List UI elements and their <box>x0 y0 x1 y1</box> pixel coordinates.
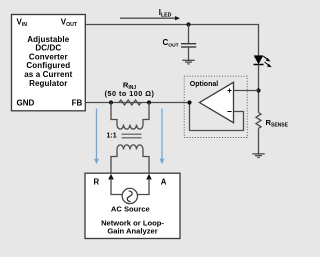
opamp - input mark <box>227 111 231 113</box>
analyzer box <box>85 173 180 238</box>
DC/DC converter block <box>12 15 86 111</box>
wire RSENSE to ground <box>258 128 260 153</box>
wires terminals to AC source <box>111 179 122 195</box>
wire feedback loop <box>190 103 244 131</box>
junction op-amp output node <box>187 100 191 104</box>
blue arrow right <box>160 109 165 165</box>
ground (COUT) <box>182 60 194 64</box>
current arrow ILED <box>120 16 180 20</box>
svg-text:1:1: 1:1 <box>107 133 117 140</box>
svg-text:as a Current: as a Current <box>24 70 72 79</box>
terminal arrow R <box>108 174 114 180</box>
transformer core <box>122 134 142 138</box>
junction RINJ right <box>147 100 151 104</box>
svg-text:(50 to 100 Ω): (50 to 100 Ω) <box>105 89 155 98</box>
svg-text:Adjustable: Adjustable <box>27 35 70 44</box>
svg-text:DC/DC: DC/DC <box>35 44 61 53</box>
LED D1 <box>254 56 264 65</box>
transformer T1 primary winding <box>111 103 149 130</box>
svg-text:R: R <box>94 178 100 187</box>
wire + input to junction <box>234 90 259 92</box>
op-amp U1 <box>200 82 234 122</box>
svg-text:AC Source: AC Source <box>111 205 150 214</box>
blue arrow left <box>94 109 99 165</box>
svg-text:Optional: Optional <box>190 81 218 88</box>
terminal arrow A <box>146 174 152 180</box>
opamp dashed box Optional <box>184 76 247 137</box>
resistor RSENSE <box>256 113 261 129</box>
svg-text:A: A <box>161 178 167 187</box>
wire LED cathode to RSENSE <box>258 65 260 113</box>
svg-text:Regulator: Regulator <box>29 79 67 88</box>
svg-text:FB: FB <box>72 99 83 108</box>
AC source V1 <box>122 188 137 203</box>
capacitor COUT <box>181 25 196 61</box>
junction RINJ left <box>109 100 113 104</box>
svg-text:Converter: Converter <box>29 52 68 61</box>
LED light emission arrows <box>263 56 272 67</box>
svg-text:GND: GND <box>17 99 35 108</box>
ground (RSENSE) <box>252 154 264 158</box>
junction op-amp + input tap <box>256 88 260 92</box>
svg-text:Gain Analyzer: Gain Analyzer <box>107 227 157 236</box>
junction COUT tap <box>186 22 190 26</box>
converter description text <box>24 35 72 88</box>
resistor RINJ <box>119 100 141 105</box>
wire FB line (FB pin to op-amp output node) <box>85 102 189 104</box>
wire VOUT to LED anode (top rail) <box>85 25 258 56</box>
transformer T1 secondary winding <box>111 145 149 173</box>
opamp + input mark <box>227 88 231 92</box>
svg-text:Configured: Configured <box>26 61 70 70</box>
